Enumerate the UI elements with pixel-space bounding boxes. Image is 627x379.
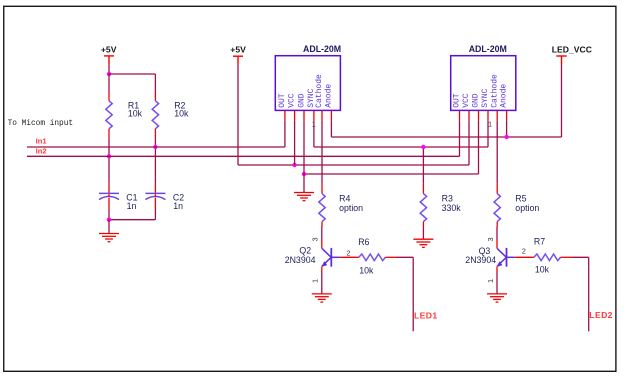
svg-text:GND: GND — [297, 93, 306, 108]
resistor R7 — [534, 254, 561, 261]
power +5V (left) — [104, 56, 114, 65]
ground (GND row) — [294, 193, 314, 201]
wire Cathode-L down to R4 — [321, 120, 323, 193]
wire top rail — [109, 73, 155, 75]
svg-text:R5: R5 — [515, 194, 526, 204]
node junction Anode-R / LED_VCC row — [504, 135, 508, 139]
transistor Q3 — [497, 248, 515, 267]
wire SYNC-R down to In1-right row — [487, 120, 489, 147]
wire C1 bottom — [108, 198, 110, 220]
svg-text:Cathode: Cathode — [490, 74, 499, 108]
pin stubs U2 — [460, 111, 507, 120]
value label R2 10k — [174, 100, 189, 118]
wire R4 bottom to Q2 collector — [321, 222, 323, 249]
svg-text:Anode: Anode — [500, 84, 509, 108]
wire R1 bottom to C1 — [108, 129, 110, 194]
svg-text:3: 3 — [311, 237, 320, 241]
ground (below C1/C2) — [99, 234, 119, 242]
node junction R3 / In1-right — [421, 145, 425, 149]
svg-text:LED2: LED2 — [589, 310, 613, 320]
capacitor C1 — [99, 193, 119, 199]
svg-text:2N3904: 2N3904 — [465, 255, 496, 265]
svg-text:+5V: +5V — [101, 44, 117, 54]
svg-text:R3: R3 — [442, 194, 453, 204]
wire LED_VCC down — [561, 65, 563, 137]
svg-text:option: option — [515, 203, 539, 213]
wire Q2 base to R6 — [340, 256, 359, 258]
wire +5V1 to top rail — [108, 65, 110, 74]
svg-text:option: option — [339, 203, 363, 213]
svg-text:2N3904: 2N3904 — [285, 255, 316, 265]
svg-text:330k: 330k — [442, 203, 462, 213]
resistor R2 — [152, 101, 158, 129]
wire VCC-R down to VCC row — [468, 120, 470, 165]
ground (R3) — [413, 239, 433, 247]
resistor R1 — [106, 101, 112, 129]
wire OUT-R down to In2 — [459, 120, 461, 156]
wire R6 right to LED1 — [386, 257, 414, 331]
svg-text:R7: R7 — [534, 237, 545, 247]
wire R2 bottom to C2 — [154, 129, 156, 194]
power +5V (middle) — [233, 56, 243, 65]
svg-text:GND: GND — [472, 93, 481, 108]
svg-text:3: 3 — [486, 237, 495, 241]
capacitor C2 — [145, 193, 165, 199]
svg-text:+5V: +5V — [230, 44, 246, 54]
svg-text:2: 2 — [346, 249, 350, 258]
svg-text:In1: In1 — [36, 137, 48, 146]
value label R4 option — [339, 194, 363, 214]
wire R2 top — [154, 74, 156, 101]
svg-text:1n: 1n — [173, 201, 183, 211]
value label R5 option — [515, 194, 539, 214]
ground (Q2) — [312, 294, 332, 302]
IC U1 ADL-20M (left module) — [275, 56, 340, 111]
node junction GND left — [302, 172, 306, 176]
wire R5 bottom to Q3 collector — [496, 222, 498, 249]
wire In2 — [27, 155, 460, 157]
wire In1 right segment (SYNC net) — [314, 146, 488, 148]
wire GND row — [304, 173, 479, 175]
node junction VCC left — [292, 163, 296, 167]
node junction In1 / R2 column — [153, 145, 157, 149]
wire OUT-L down to In1 — [284, 120, 286, 147]
svg-text:1: 1 — [311, 279, 320, 283]
svg-text:10k: 10k — [535, 265, 550, 275]
svg-text:SYNC: SYNC — [481, 88, 490, 107]
wire to ground (caps) — [108, 220, 110, 234]
wire In1 (left segment) — [27, 146, 285, 148]
value label C2 1n — [173, 193, 184, 211]
node junction bottom rail — [107, 218, 111, 222]
svg-text:Cathode: Cathode — [315, 74, 324, 108]
wire C2 inner stub — [154, 194, 156, 197]
wire Q3 emitter to ground — [496, 266, 498, 294]
wire Anode-L down to LED_VCC row — [330, 120, 332, 137]
resistor R3 — [420, 194, 426, 222]
svg-text:To Micom input: To Micom input — [8, 120, 74, 128]
wire bottom rail — [109, 219, 155, 221]
svg-text:VCC: VCC — [288, 93, 297, 108]
svg-text:1n: 1n — [127, 201, 137, 211]
value label R3 330k — [442, 194, 462, 214]
wire Q3 base to R7 — [515, 256, 534, 258]
svg-text:10k: 10k — [359, 265, 374, 275]
svg-text:OUT: OUT — [278, 93, 287, 108]
wire Q2 emitter to ground — [321, 266, 323, 294]
pin stubs U1 — [285, 111, 332, 120]
wire R3 top from In1-right — [422, 147, 424, 194]
svg-text:LED1: LED1 — [414, 310, 438, 320]
svg-text:ADL-20M: ADL-20M — [303, 44, 341, 54]
svg-text:Q2: Q2 — [299, 245, 311, 255]
wire R3 bottom to ground — [422, 222, 424, 240]
wire C2 bottom — [154, 198, 156, 220]
resistor R6 — [359, 254, 386, 261]
value label C1 1n — [126, 193, 137, 211]
node junction top rail — [107, 72, 111, 76]
wire R7 right to LED2 — [561, 257, 589, 331]
wire Anode-R down to LED_VCC row — [506, 120, 508, 137]
wire +5V2 down to VCC row — [237, 65, 239, 165]
ground (Q3) — [487, 294, 507, 302]
wire VCC row — [238, 164, 469, 166]
svg-text:VCC: VCC — [462, 93, 471, 108]
power LED_VCC — [556, 56, 566, 65]
wire C1 inner stub — [108, 194, 110, 197]
wire R1 top — [108, 74, 110, 101]
wire GND-R down to GND row — [478, 120, 480, 174]
node junction In2 / R1 column — [107, 154, 111, 158]
svg-text:Anode: Anode — [324, 84, 333, 108]
resistor R5 — [494, 194, 500, 222]
svg-text:2: 2 — [522, 246, 526, 255]
svg-text:10k: 10k — [128, 109, 143, 119]
svg-text:ADL-20M: ADL-20M — [469, 44, 507, 54]
wire GND-L down to GND row — [303, 120, 305, 174]
IC U2 ADL-20M (right module) — [451, 56, 516, 111]
svg-text:10k: 10k — [174, 109, 189, 119]
svg-text:OUT: OUT — [453, 93, 462, 108]
svg-text:LED_VCC: LED_VCC — [552, 44, 592, 54]
svg-text:R6: R6 — [358, 237, 369, 247]
transistor Q2 — [322, 248, 340, 267]
wire Cathode-R down to R5 — [496, 120, 498, 193]
wire GND row to ground — [303, 174, 305, 193]
resistor R4 — [319, 194, 325, 222]
wire SYNC-L down to In1-right row — [313, 120, 315, 147]
svg-text:R4: R4 — [339, 194, 350, 204]
svg-text:1: 1 — [486, 279, 495, 283]
wire VCC-L down to VCC row — [294, 120, 296, 165]
value label R1 10k — [128, 100, 143, 118]
wire LED_VCC row — [331, 136, 561, 138]
svg-text:In2: In2 — [36, 146, 47, 155]
